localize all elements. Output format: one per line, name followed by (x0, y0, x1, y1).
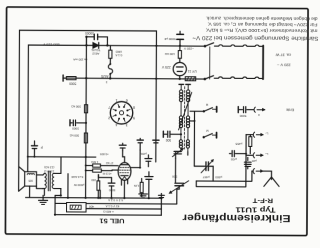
wire bus 1 (26, 196, 162, 199)
terminal phono (62, 75, 64, 81)
svg-text:µ/05: µ/05 (231, 157, 237, 161)
antenna coil left winding (179, 90, 182, 93)
wire chassis rail to speaker (27, 157, 29, 172)
wire to output terminals (196, 171, 252, 181)
wire transformer secondary (55, 157, 61, 196)
junction chassis V1 (85, 156, 87, 158)
bus junction dots (84, 197, 86, 199)
band switch upper (203, 110, 205, 112)
trimmer capacitor (174, 150, 181, 152)
earth capacitor (243, 107, 245, 113)
resistor on V1 upper (84, 105, 87, 113)
svg-text:A612: A612 (92, 51, 99, 55)
ground below tube (142, 191, 144, 194)
svg-text:220 V ~: 220 V ~ (276, 63, 290, 68)
svg-text:5000: 5000 (109, 188, 116, 192)
svg-text:6,3 V 0,2 A: 6,3 V 0,2 A (108, 198, 123, 202)
svg-text:UEL 51: UEL 51 (99, 217, 125, 224)
cathode capacitor (108, 182, 115, 184)
svg-text:Lᵥ: Lᵥ (265, 152, 268, 156)
wire coil to switch (190, 110, 204, 112)
svg-text:µ487: µ487 (202, 175, 209, 179)
svg-text:1500 Ω: 1500 Ω (44, 169, 55, 173)
svg-text:7: 7 (108, 105, 110, 109)
svg-text:Für 220V~ beträgt die Spannung: Für 220V~ beträgt die Spannung an C₁ ca.… (207, 22, 317, 28)
svg-text:µ500: µ500 (215, 175, 222, 179)
svg-text:1,2k: 1,2k (133, 184, 139, 188)
bypass capacitor left (31, 145, 37, 147)
tuning capacitor (178, 158, 180, 182)
svg-text:50000: 50000 (85, 31, 94, 35)
resistor on V1 lower (84, 133, 87, 143)
bandset capacitor (194, 165, 205, 167)
wire heater bus AUS line (63, 77, 205, 80)
wire bus risers (55, 174, 162, 216)
heater resistor hatched (185, 77, 196, 81)
rectifier diode (93, 43, 99, 49)
resistor 5000 on bus (66, 77, 76, 80)
band switch lower (203, 136, 205, 138)
svg-text:400: 400 (89, 205, 94, 209)
tone capacitors right (145, 176, 153, 178)
svg-text:µ/06: µ/06 (141, 152, 147, 156)
svg-text:5000: 5000 (69, 81, 76, 85)
antenna symbol (263, 171, 272, 177)
capacitor mid (137, 139, 143, 141)
wire B+ rail (left/top loop) (19, 30, 157, 192)
mains cord upper (214, 45, 263, 47)
svg-text:5: 5 (133, 116, 135, 120)
coil terminals (179, 83, 184, 85)
svg-text:AUS: AUS (100, 74, 108, 78)
mains plug (262, 46, 264, 80)
wire vertical V1 (85, 37, 88, 198)
svg-text:225 V: 225 V (161, 65, 170, 69)
wire V2 tail (176, 152, 188, 159)
wire mains/anode line W1 (28, 45, 205, 158)
svg-text:Typ 1U11: Typ 1U11 (235, 205, 276, 214)
svg-text:17 kΩ: 17 kΩ (105, 161, 113, 165)
antenna coil right winding (186, 90, 189, 93)
switch coupling link (209, 47, 211, 79)
svg-text:6+4 AΩΣ: 6+4 AΩΣ (71, 175, 83, 179)
terminal earth (237, 107, 239, 113)
svg-text:5000: 5000 (72, 127, 79, 131)
grid resistor (93, 164, 101, 167)
resistor URD (109, 50, 112, 58)
svg-text:die übrigen Meßwerte gehen dem: die übrigen Meßwerte gehen dementsprech.… (206, 16, 318, 22)
coupling capacitor (229, 153, 231, 155)
svg-text:3: 3 (126, 123, 128, 127)
tube socket diagram (110, 102, 133, 125)
svg-text:≈0,5 M: ≈0,5 M (102, 172, 111, 176)
svg-text:mit Röhrenvoltmeter (5×1000 Ω/: mit Röhrenvoltmeter (5×1000 Ω/V); Rₕ= 5 … (205, 28, 317, 34)
wire bus 3 (86, 208, 161, 210)
switch mains lower pole (204, 78, 207, 81)
svg-text:5000: 5000 (239, 114, 246, 118)
svg-text:~220 V: ~220 V (183, 46, 194, 50)
phono input capacitor (69, 120, 71, 126)
cathode resistor (97, 181, 100, 190)
svg-text:100 kΩ: 100 kΩ (164, 52, 175, 56)
svg-text:43 V 0,1 A: 43 V 0,1 A (106, 204, 120, 208)
svg-text:8: 8 (133, 106, 135, 110)
antenna series capacitor (162, 131, 164, 137)
svg-text:500 kΩ: 500 kΩ (71, 105, 81, 109)
ground speaker (43, 188, 44, 200)
svg-text:6: 6 (126, 98, 128, 102)
svg-text:5000 µF: 5000 µF (164, 37, 176, 41)
output transformer (36, 175, 42, 189)
wire coil tap (190, 111, 195, 166)
blocking capacitor (244, 161, 251, 163)
svg-text:R-F-T: R-F-T (253, 197, 274, 204)
svg-text:0,1 A: 0,1 A (115, 53, 122, 57)
svg-text:ca. 37 W: ca. 37 W (275, 53, 291, 58)
switch mains upper pole (204, 45, 207, 48)
svg-text:µ500 W: µ500 W (74, 183, 85, 187)
grid capacitor (119, 144, 126, 146)
tube UEL51 (118, 162, 131, 180)
coil core dashed (183, 87, 185, 149)
svg-text:≈ 480 Ω: ≈ 480 Ω (102, 210, 113, 214)
fuse (108, 65, 112, 74)
svg-text:ca 150 mA: ca 150 mA (73, 58, 87, 62)
svg-text:µ455: µ455 (235, 142, 242, 146)
rectifier tube UY11 (173, 62, 186, 75)
terminal A2 (246, 154, 253, 156)
tube leads (123, 151, 125, 163)
capacitor on riser (159, 194, 165, 196)
svg-text:1: 1 (115, 98, 117, 102)
svg-text:500: 500 (172, 175, 177, 179)
svg-text:(13 kΩ): (13 kΩ) (44, 166, 54, 170)
wire bus 2 (55, 202, 177, 205)
wire chassis rail (28, 156, 96, 158)
svg-text:über 220 V: über 220 V (42, 42, 59, 46)
svg-text:µ: µ (41, 146, 43, 150)
svg-text:URD: URD (115, 50, 122, 54)
terminal antenna (251, 170, 254, 172)
svg-text:≈0,005: ≈0,005 (100, 152, 109, 156)
hum balance box (67, 203, 87, 213)
mains cord lower (214, 77, 263, 79)
speaker (25, 172, 37, 186)
wire bus 4 (55, 214, 161, 217)
capacitor across diode (86, 37, 107, 46)
svg-text:2: 2 (108, 116, 110, 120)
terminal A1 (246, 134, 253, 136)
resistor right (249, 137, 252, 147)
grid leak resistor (93, 169, 102, 172)
svg-text:1 MΩ: 1 MΩ (90, 160, 98, 164)
svg-text:Sämtliche Spannungen gemessen: Sämtliche Spannungen gemessen bei 220 V~ (192, 34, 318, 41)
svg-text:Lᵥ: Lᵥ (266, 132, 269, 136)
svg-text:500: 500 (166, 138, 172, 142)
svg-text:UY 11: UY 11 (188, 69, 197, 73)
capacitor 5000u electrolytic (177, 33, 184, 35)
svg-text:300 kΩ: 300 kΩ (69, 133, 79, 137)
core adjust arrow (179, 92, 192, 130)
capacitor on V2 (153, 139, 159, 141)
anode resistor right (140, 182, 143, 192)
resistor 100k (178, 51, 181, 59)
svg-text:4: 4 (115, 123, 117, 127)
svg-text:Erde: Erde (286, 108, 294, 112)
svg-text:µ45: µ45 (251, 159, 256, 163)
svg-text:305: 305 (28, 179, 33, 183)
svg-text:150: 150 (91, 178, 96, 182)
